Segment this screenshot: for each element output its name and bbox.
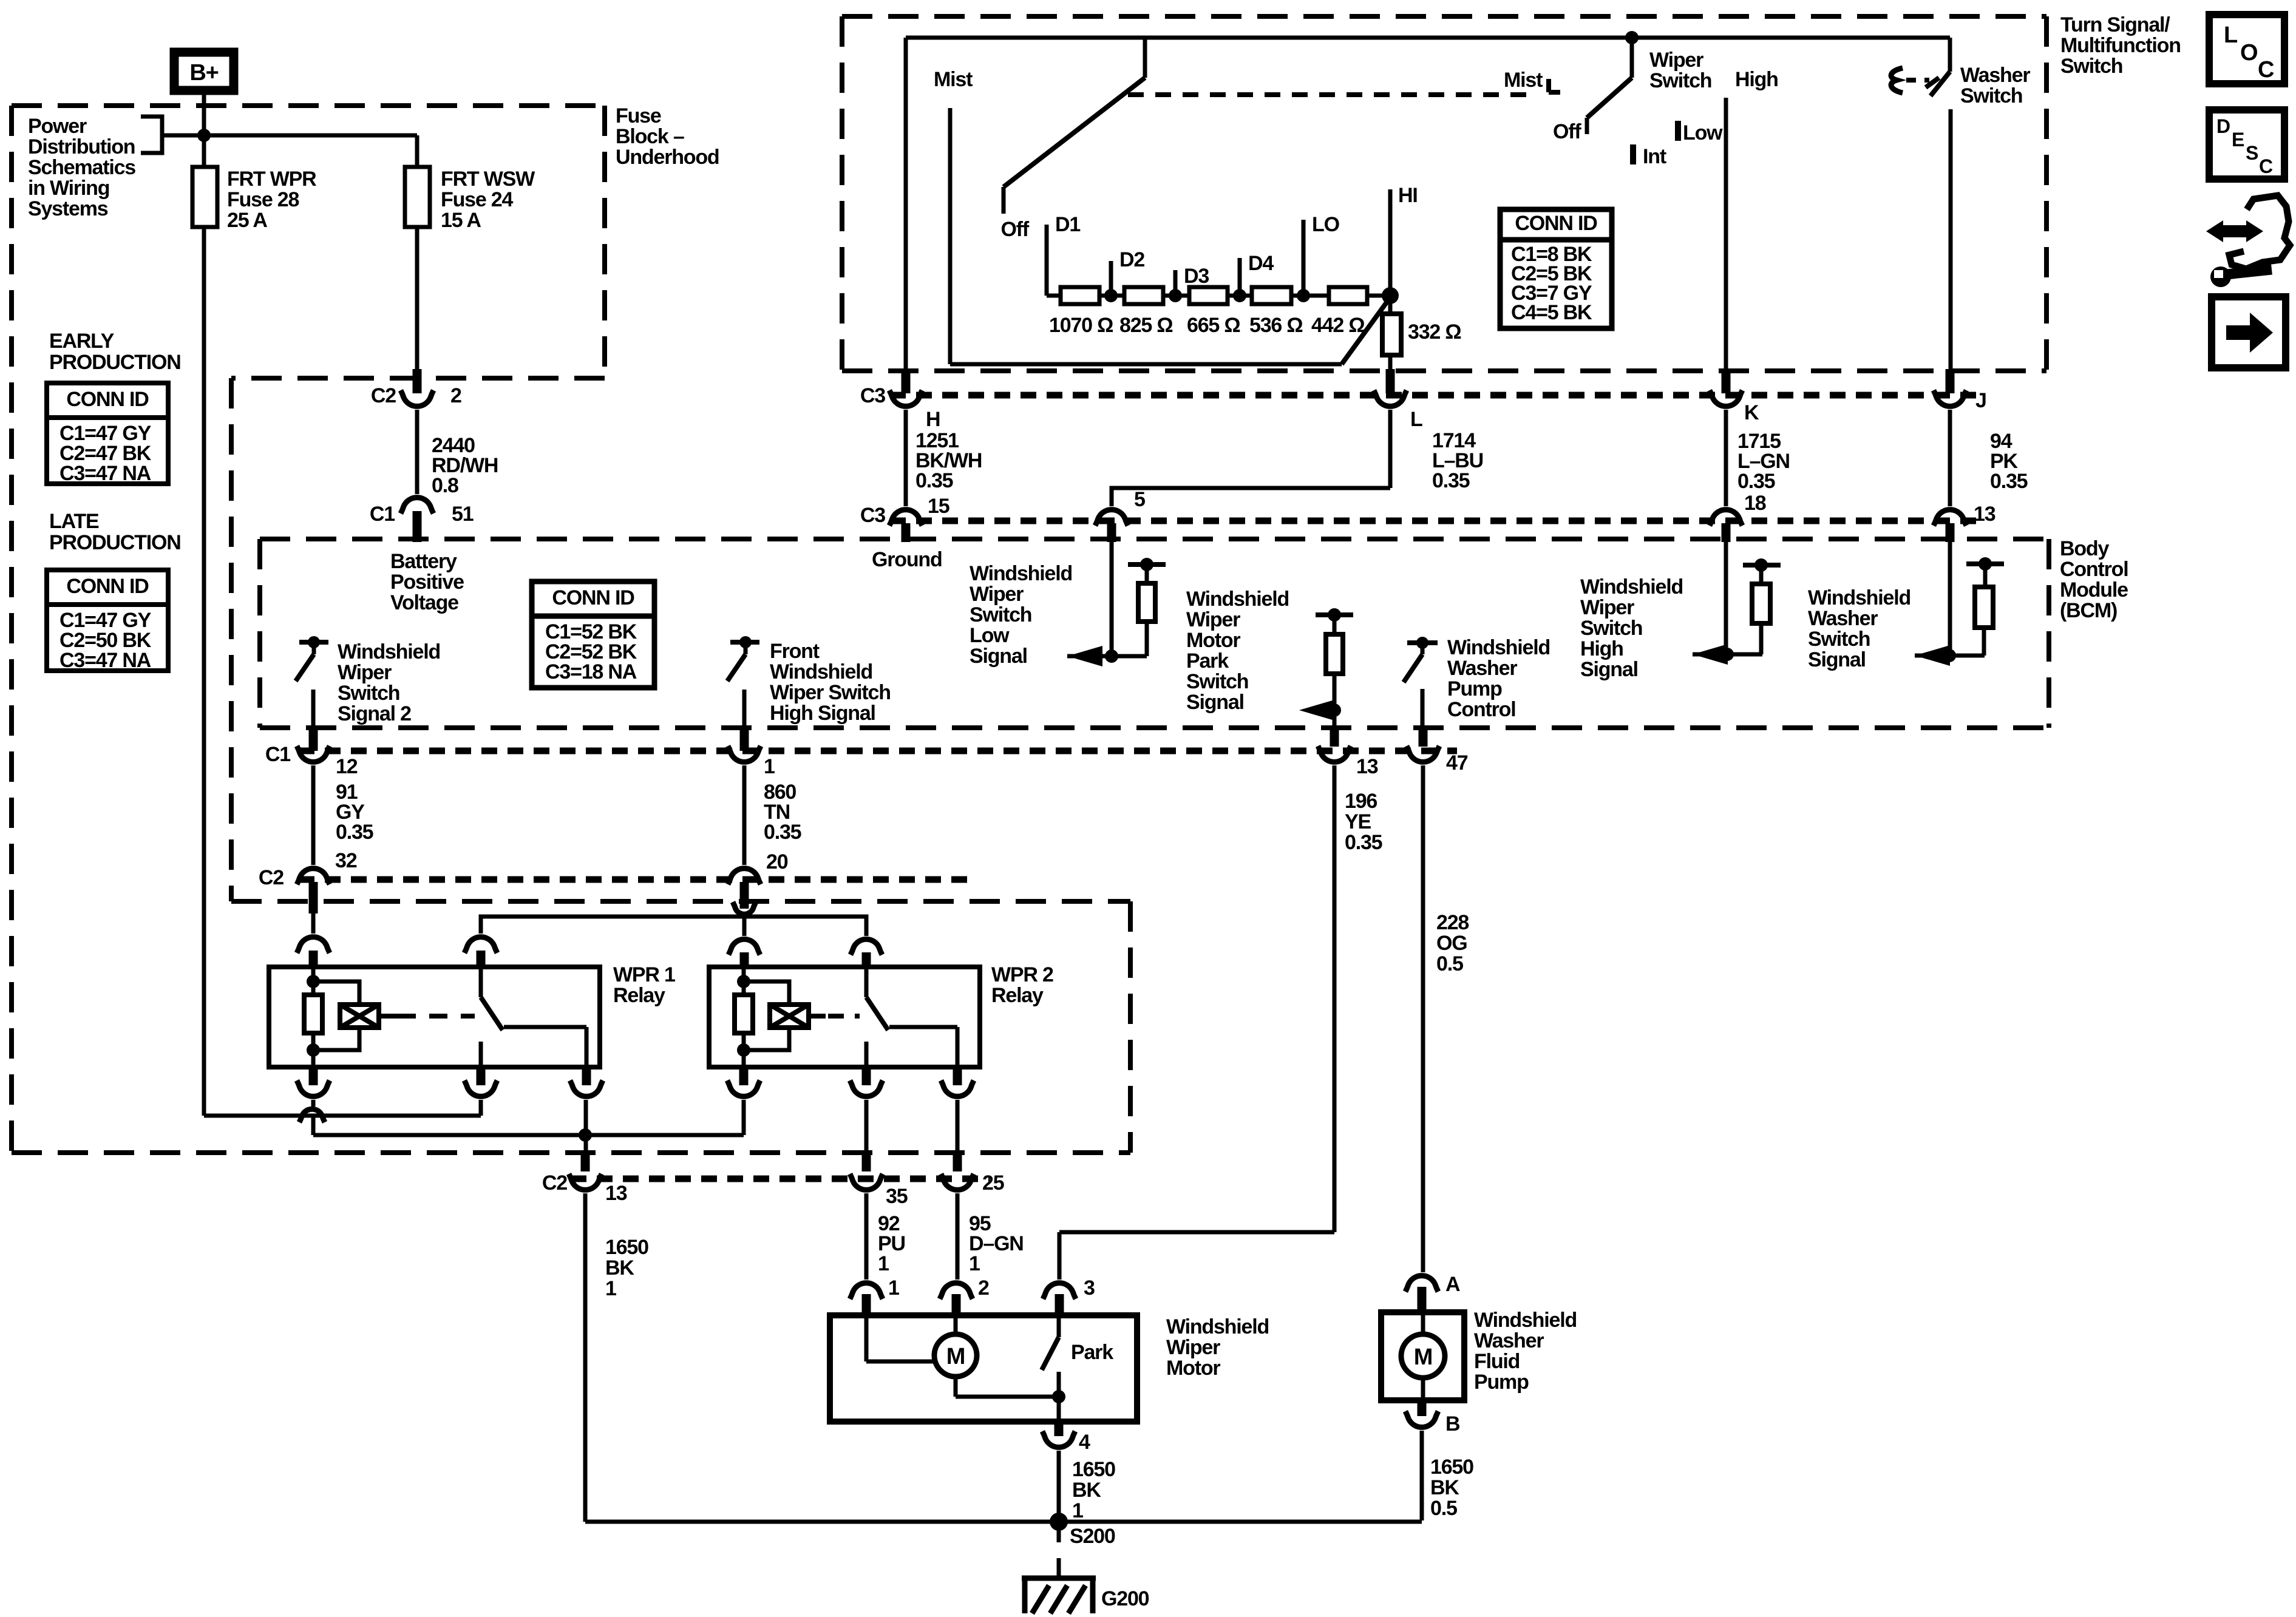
wire resistor ladder bottom [950, 362, 1342, 367]
connector C3 pin L [1374, 390, 1407, 406]
svg-text:H: H [926, 408, 940, 431]
svg-text:L: L [1410, 408, 1422, 431]
power distribution bracket [141, 117, 162, 153]
CONN ID table (late production) [47, 570, 168, 671]
contact bar Low [1675, 121, 1681, 141]
wire 1650 BK pump ground [1420, 1431, 1424, 1520]
svg-text:A: A [1445, 1273, 1460, 1296]
resistor 825 ohm [1124, 287, 1163, 304]
connector row C2 (13/35/25) [571, 1176, 990, 1182]
svg-text:13: 13 [605, 1182, 627, 1205]
svg-text:825 Ω: 825 Ω [1119, 314, 1172, 337]
turn signal / multifunction switch dashed box [842, 14, 2046, 19]
BCM CONN ID table [532, 581, 654, 688]
svg-text:C2: C2 [371, 384, 396, 407]
svg-text:C3: C3 [860, 384, 885, 407]
svg-text:C2: C2 [259, 866, 284, 889]
svg-text:3: 3 [1084, 1276, 1095, 1300]
tap D1 [1045, 225, 1049, 296]
svg-text:13: 13 [1356, 755, 1378, 778]
junction wiper switch feed [1625, 31, 1639, 44]
svg-text:E: E [2232, 129, 2244, 151]
washer switch dashed link [1906, 78, 1929, 83]
svg-text:C1: C1 [265, 743, 290, 766]
svg-text:J: J [1975, 389, 1986, 412]
svg-text:BatteryPositiveVoltage: BatteryPositiveVoltage [390, 550, 464, 614]
stub signal2 to C1-12 [309, 728, 318, 751]
svg-text:D2: D2 [1119, 248, 1144, 271]
svg-text:Park: Park [1071, 1341, 1113, 1364]
wire 228 OG [1421, 765, 1425, 1272]
resistor 1070 ohm [1061, 287, 1099, 304]
stub ground into BCM [902, 523, 911, 542]
hotlink icon: arrows + outline + wrench [2206, 220, 2263, 242]
wire switch feed top [906, 36, 1950, 40]
motor park switch [1057, 1315, 1061, 1337]
mist contact mark (right) [1546, 79, 1551, 92]
svg-text:D4: D4 [1248, 252, 1274, 275]
junction B+ feed [197, 129, 211, 142]
BCM wiper switch high signal input [1724, 542, 1728, 654]
connector C2 pin 13 [569, 1174, 602, 1190]
wire 92 PU to motor 1 [864, 1193, 869, 1280]
svg-text:B: B [1445, 1412, 1460, 1436]
svg-text:C3: C3 [860, 504, 885, 527]
svg-text:2: 2 [978, 1276, 989, 1300]
svg-text:51: 51 [452, 503, 474, 526]
svg-text:1: 1 [764, 755, 775, 778]
relay WPR2 switch [864, 967, 869, 997]
pull-up resistor park signal [1326, 634, 1343, 674]
connector pump pin A [1405, 1276, 1438, 1292]
svg-text:HI: HI [1398, 184, 1418, 207]
wire 1714 jog to pin 5 [1112, 488, 1390, 506]
wiper switch arm (left side, Off position) [1143, 38, 1147, 78]
relay WPR2 box [709, 967, 980, 1067]
connector C1 pin 12 [297, 746, 330, 762]
resistor 536 ohm [1252, 287, 1291, 304]
stub 91 GY to relay [309, 882, 318, 914]
wire ground bus S200 [585, 1520, 1422, 1524]
wire relay2 NO to C2-25 [956, 1100, 960, 1171]
svg-text:12: 12 [336, 755, 358, 778]
svg-text:C: C [2258, 57, 2274, 83]
outer left dashed box edge [9, 106, 14, 1153]
wire 1715 L-GN [1724, 410, 1728, 506]
junction ground bus [579, 1128, 592, 1142]
stub 860 TN to relays [740, 882, 749, 909]
motor pin cups [850, 1283, 883, 1299]
body control module dashed box [260, 537, 2049, 541]
BCM washer switch signal input [1948, 542, 1952, 656]
tap LO [1302, 220, 1306, 296]
wire diagonal to HI node [1342, 297, 1390, 364]
connector C2 pin 35 [850, 1174, 883, 1190]
connector pump pin B [1405, 1411, 1438, 1427]
connector stub C2-2 [413, 369, 422, 393]
stub C1-51 into BCM [413, 511, 422, 542]
wire 860 TN [742, 765, 747, 865]
svg-text:15: 15 [928, 495, 949, 518]
connector pin 47 (228 OG) [1407, 746, 1439, 762]
connector pin 5 [1095, 510, 1128, 526]
wire 91 GY [311, 765, 316, 865]
svg-text:K: K [1744, 401, 1759, 424]
tap D3 [1173, 270, 1178, 296]
svg-text:B+: B+ [189, 60, 218, 86]
svg-text:D3: D3 [1184, 265, 1209, 288]
svg-text:C1=8 BKC2=5 BKC3=7 GYC4=5 BK: C1=8 BKC2=5 BKC3=7 GYC4=5 BK [1511, 243, 1592, 324]
inline connector pair on 860 TN [733, 902, 756, 914]
svg-text:CONN ID: CONN ID [552, 586, 634, 609]
svg-text:O: O [2240, 40, 2257, 66]
resistor chain wire [1047, 294, 1390, 298]
wire 94 PK [1948, 410, 1952, 506]
wire washer switch to C3-J [1949, 109, 1953, 381]
svg-text:CONN ID: CONN ID [66, 575, 149, 598]
washer switch arm [1931, 72, 1950, 96]
BCM wiper switch low signal input [1110, 542, 1114, 656]
ground symbol G200 [1057, 1558, 1061, 1581]
fuse FRT WSW Fuse 24 [405, 167, 430, 227]
relay WPR1 switch [479, 967, 483, 997]
resistor 332 ohm [1382, 314, 1401, 355]
dashed mist link [1128, 92, 1533, 97]
connector C3 pin J [1934, 390, 1966, 406]
relay WPR1 coil [311, 967, 316, 995]
relay WPR2 coil element [770, 1005, 809, 1028]
tap D2 [1109, 261, 1113, 296]
pull-up resistor high signal [1752, 584, 1770, 623]
svg-text:L: L [2224, 22, 2238, 48]
svg-text:S: S [2246, 142, 2258, 164]
svg-text:C1=52 BKC2=52 BKC3=18 NA: C1=52 BKC2=52 BKC3=18 NA [545, 620, 637, 683]
wire High to C3-K [1724, 98, 1728, 381]
relay WPR1 bottom pins [309, 1067, 318, 1085]
svg-text:Off: Off [1001, 218, 1030, 241]
svg-text:C1: C1 [370, 503, 395, 526]
resistor 442 ohm [1329, 287, 1367, 304]
LOC icon box [2209, 15, 2284, 84]
wire fuse 24 down to C2-2 [415, 227, 419, 381]
wire 196 YE [1333, 765, 1337, 1232]
svg-text:C: C [2259, 155, 2273, 177]
BCM front wiper switch high signal output switch [730, 640, 759, 645]
svg-text:32: 32 [335, 849, 357, 872]
svg-text:Low: Low [1683, 121, 1723, 144]
connector pin 18 [1710, 510, 1742, 526]
fuse FRT WPR Fuse 28 [192, 167, 217, 227]
wire feed to fuse 24 [162, 134, 417, 138]
B+ power feed box [174, 52, 234, 90]
wire park signal jog [1059, 1230, 1334, 1235]
wire into fuse 24 [415, 135, 419, 167]
svg-text:C1=47 GYC2=47 BKC3=47 NA: C1=47 GYC2=47 BKC3=47 NA [59, 422, 152, 485]
connector C1 pin 1 [728, 746, 761, 762]
CONN ID table (early production) [47, 383, 168, 484]
svg-text:4: 4 [1079, 1431, 1090, 1454]
svg-text:CONN ID: CONN ID [66, 388, 149, 411]
svg-text:332 Ω: 332 Ω [1408, 320, 1461, 344]
connector C3 pin H [889, 390, 922, 406]
BCM wiper switch signal 2 output switch [299, 640, 328, 645]
svg-text:18: 18 [1744, 492, 1766, 515]
svg-text:S200: S200 [1070, 1525, 1115, 1548]
svg-text:442 Ω: 442 Ω [1311, 314, 1364, 337]
tap HI [1388, 189, 1393, 296]
svg-text:1: 1 [888, 1276, 899, 1300]
tap D4 [1238, 258, 1242, 296]
windshield wiper motor box [830, 1315, 1137, 1422]
connector motor pin 4 [1042, 1431, 1075, 1447]
connector pin 13 [1934, 510, 1966, 526]
windshield washer fluid pump box [1381, 1312, 1464, 1400]
svg-text:35: 35 [886, 1185, 908, 1208]
svg-text:665 Ω: 665 Ω [1187, 314, 1240, 337]
svg-text:D1: D1 [1055, 213, 1080, 236]
svg-text:M: M [946, 1344, 965, 1369]
arrow icon box [2212, 297, 2286, 368]
svg-text:1070 Ω: 1070 Ω [1049, 314, 1113, 337]
connector pin 13 (196 YE) [1318, 746, 1351, 762]
relay WPR2 bottom pins [739, 1067, 749, 1085]
wire 1714 L-BU [1388, 410, 1393, 488]
wire left leg to C3-H [904, 38, 908, 379]
stub wiper low signal into BCM [1107, 523, 1116, 542]
svg-text:WiperSwitch: WiperSwitch [1649, 49, 1711, 92]
stub high out to C1-1 [740, 728, 749, 751]
washer switch [1948, 38, 1952, 72]
DESC icon box [2209, 110, 2284, 179]
svg-text:25: 25 [982, 1171, 1004, 1195]
svg-text:CONN ID: CONN ID [1515, 212, 1597, 235]
fuse block underhood dashed box [12, 103, 605, 108]
wire B+ to fuse 28 [202, 95, 206, 167]
connector C2 pin 25 [941, 1174, 974, 1190]
relay WPR1 box [269, 967, 600, 1067]
stub washer signal into BCM [1946, 523, 1955, 542]
connector row C3 (H/L/K/J) [890, 392, 1985, 399]
middle connector dashed box [229, 378, 234, 901]
pull-up resistor washer signal [1975, 587, 1993, 628]
svg-text:20: 20 [766, 850, 788, 873]
wire coil ground bus [313, 1133, 744, 1137]
pull-up resistor low signal [1138, 583, 1155, 622]
svg-text:13: 13 [1974, 503, 1995, 526]
connector relay1 coil pin [297, 937, 330, 953]
wire 95 D-GN to motor 2 [956, 1193, 960, 1280]
connector row C3 (15/5/18/13) [890, 518, 1985, 524]
wire 1650 BK motor ground [1057, 1451, 1061, 1522]
connector relay1 switch pin [464, 937, 497, 953]
wire to motor pin 3 [1058, 1232, 1062, 1280]
wire relay2 coil to bus [742, 1100, 746, 1135]
connector row C2 (32/20) [299, 876, 977, 883]
connector C1 pin 51 [401, 498, 433, 514]
connector relay2 switch pin [851, 939, 882, 955]
BCM washer pump control switch [1407, 640, 1438, 645]
svg-text:High: High [1735, 68, 1778, 91]
svg-text:536 Ω: 536 Ω [1249, 314, 1302, 337]
relay WPR2 mech link dashes [828, 1014, 860, 1019]
connector C3 pin K [1710, 390, 1742, 406]
wire 2440 RD/WH [415, 410, 419, 494]
turn signal CONN ID table [1500, 209, 1612, 328]
svg-text:C2: C2 [542, 1171, 567, 1195]
wire relay1 NO down to C2-13 [584, 1100, 588, 1171]
relay1 coil ground path [311, 1100, 316, 1107]
connector row C1 (12/1/13/47) [299, 748, 1457, 754]
wire fuse 28 to relay common feed [202, 227, 206, 1116]
connector C3 pin 15 [889, 510, 922, 526]
wire 1650 BK to S200 [583, 1193, 588, 1522]
svg-text:Off: Off [1553, 120, 1581, 143]
svg-text:C1=47 GYC2=50 BKC3=47 NA: C1=47 GYC2=50 BKC3=47 NA [59, 609, 152, 672]
svg-text:Mist: Mist [934, 68, 973, 91]
splice S200 [1050, 1513, 1068, 1531]
wire 1251 BK/WH [904, 410, 908, 506]
connector C2 pin 20 [728, 869, 761, 884]
resistor 665 ohm [1189, 287, 1228, 304]
svg-text:WasherSwitch: WasherSwitch [1960, 64, 2030, 107]
svg-text:Ground: Ground [872, 548, 942, 571]
contact bar Int [1630, 144, 1636, 164]
wire relay pivots feed [481, 917, 866, 936]
svg-text:D: D [2216, 115, 2230, 137]
svg-text:47: 47 [1446, 751, 1468, 775]
connector C2 pin 2 [401, 390, 433, 406]
svg-text:2: 2 [450, 384, 461, 407]
svg-text:G200: G200 [1101, 1587, 1149, 1610]
wiper switch arm (left) [1630, 38, 1634, 78]
svg-text:Mist: Mist [1504, 69, 1543, 92]
BCM wiper motor park switch signal input [1316, 612, 1353, 617]
relay WPR2 coil [742, 967, 746, 995]
svg-text:Int: Int [1643, 145, 1666, 168]
relay WPR1 coil element [340, 1005, 379, 1028]
pump M symbol [1401, 1334, 1445, 1378]
wire relay2 out to C2-35 [864, 1100, 869, 1171]
wire B+ to relay1 common [204, 1114, 481, 1118]
svg-text:M: M [1414, 1344, 1432, 1370]
washer switch curl contact [1891, 68, 1903, 93]
motor M symbol [934, 1334, 977, 1377]
svg-text:LO: LO [1312, 213, 1340, 236]
relay WPR1 mech link dashes [398, 1014, 475, 1019]
connector C2 pin 32 [297, 869, 330, 884]
wire mist contact down [948, 108, 953, 364]
stub wiper high signal into BCM [1722, 523, 1731, 542]
svg-text:5: 5 [1134, 488, 1145, 511]
